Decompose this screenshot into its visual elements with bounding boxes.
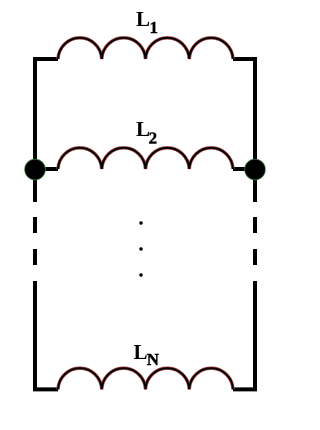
wire: right rail dash 2 bbox=[253, 249, 257, 265]
ellipsis dot 2 bbox=[139, 247, 142, 250]
inductor L2 bbox=[58, 148, 233, 169]
svg-text:L: L bbox=[136, 7, 150, 31]
wire: top-left corner + left rail upper segment bbox=[35, 59, 58, 202]
label L2 bbox=[136, 117, 157, 148]
svg-text:N: N bbox=[147, 350, 160, 369]
ellipsis dot 3 bbox=[139, 273, 142, 276]
svg-text:1: 1 bbox=[150, 18, 159, 37]
svg-text:L: L bbox=[134, 340, 148, 364]
ellipsis dot 1 bbox=[139, 221, 142, 224]
label LN bbox=[134, 340, 160, 369]
wire: left rail dash 1 bbox=[33, 217, 37, 233]
label L1 bbox=[136, 7, 158, 37]
wire: right rail dash 1 bbox=[253, 217, 257, 233]
wire: top-right corner + right rail upper segment bbox=[233, 59, 255, 202]
wire: right stub to L2 bbox=[233, 167, 255, 171]
wire: left rail dash 2 bbox=[33, 249, 37, 265]
node: right junction dot bbox=[245, 159, 266, 180]
inductor LN bbox=[58, 368, 233, 389]
inductor L1 bbox=[58, 38, 233, 59]
wire: left stub to L2 bbox=[35, 167, 58, 171]
wire: right rail lower segment + bottom-right corner bbox=[233, 281, 255, 389]
node: left junction dot bbox=[25, 159, 46, 180]
wire: left rail lower segment + bottom-left corner bbox=[35, 281, 58, 389]
svg-text:2: 2 bbox=[149, 129, 158, 148]
